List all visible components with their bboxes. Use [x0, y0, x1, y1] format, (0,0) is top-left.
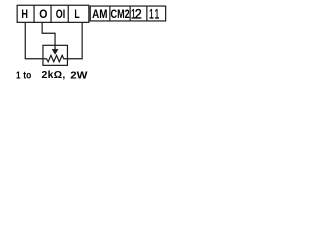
svg-text:2kΩ,: 2kΩ,: [41, 70, 65, 81]
svg-text:2: 2: [135, 6, 142, 22]
svg-text:2W: 2W: [70, 70, 88, 81]
svg-text:AM: AM: [92, 8, 107, 21]
svg-text:O: O: [39, 8, 47, 21]
svg-text:1: 1: [154, 6, 159, 22]
svg-text:to: to: [23, 70, 31, 82]
svg-text:L: L: [74, 9, 79, 22]
svg-text:1: 1: [16, 69, 21, 80]
svg-text:H: H: [21, 8, 28, 21]
svg-text:CM2: CM2: [111, 8, 130, 21]
svg-text:O: O: [56, 9, 63, 21]
svg-text:I: I: [63, 9, 66, 21]
svg-text:1: 1: [149, 6, 154, 22]
